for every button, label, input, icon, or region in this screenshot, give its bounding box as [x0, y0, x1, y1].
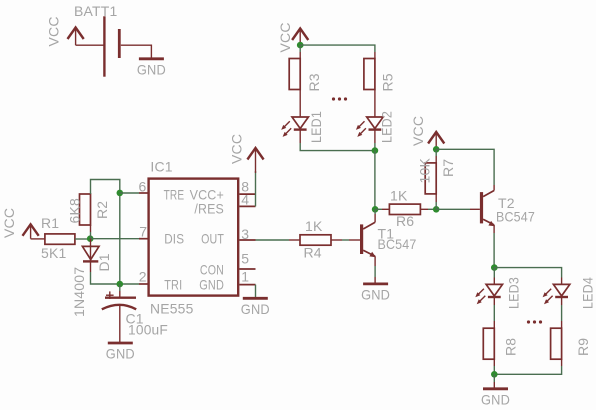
- svg-text:R4: R4: [304, 245, 322, 261]
- svg-text:R9: R9: [575, 338, 591, 356]
- ground (C1): [106, 343, 135, 362]
- wire node A to pin 7: [90, 238, 139, 240]
- svg-text:1N4007: 1N4007: [71, 267, 87, 317]
- svg-text:R5: R5: [380, 73, 396, 91]
- svg-text:TRE: TRE: [164, 187, 185, 203]
- ellipsis dots between R3 and R5: [332, 97, 347, 100]
- power VCC (top rail): [292, 29, 308, 41]
- wire node C to C1: [119, 284, 121, 291]
- resistor R5: [364, 52, 396, 92]
- ground (bottom right): [481, 389, 510, 408]
- svg-text:VCC: VCC: [46, 16, 62, 46]
- node C (pin 2 / C1 junction): [117, 281, 124, 288]
- wire R8 to ground row: [493, 359, 495, 366]
- pin 4 /RES stub: [239, 205, 255, 207]
- svg-text:D1: D1: [96, 253, 112, 271]
- wire LED3 to R8: [493, 298, 495, 306]
- svg-text:R2: R2: [94, 201, 110, 219]
- resistor R6: [375, 188, 436, 230]
- wire junction to ground: [493, 374, 495, 382]
- svg-text:6K8: 6K8: [67, 198, 83, 224]
- svg-text:10K: 10K: [417, 158, 433, 184]
- pin 3 OUT stub: [239, 239, 255, 241]
- wire LED1 cathode to junction: [299, 130, 301, 143]
- svg-text:LED2: LED2: [379, 111, 395, 143]
- IC IC1 NE555 body: [149, 179, 239, 296]
- resistor R4: [289, 218, 331, 261]
- ellipsis dots between LED3 and LED4 branches: [527, 320, 542, 323]
- node T1 collector: [372, 206, 379, 213]
- node R6/R7/T2 base: [433, 206, 440, 213]
- svg-text:LED3: LED3: [506, 277, 522, 309]
- wire VCC rail to R5: [300, 45, 375, 52]
- svg-text:BC547: BC547: [496, 209, 535, 225]
- wire D1 to pin 2 row: [90, 261, 92, 272]
- wire VCC rail to R3: [299, 45, 301, 52]
- LED LED1: [281, 111, 324, 143]
- power VCC (battery): [68, 28, 84, 40]
- LED LED4: [543, 277, 596, 309]
- wire R1 to node A: [75, 238, 90, 240]
- svg-text:GND: GND: [199, 276, 224, 292]
- svg-text:2: 2: [139, 269, 147, 285]
- node B (pin 6 junction): [117, 190, 124, 197]
- power VCC (IC1 pin 8): [247, 148, 263, 160]
- svg-text:R8: R8: [503, 338, 519, 356]
- wire VCC to battery plus: [76, 44, 105, 46]
- pin 7 DIS stub: [139, 238, 149, 240]
- battery BATT1: [104, 16, 119, 76]
- transistor T1 BC547: [362, 214, 417, 257]
- wire T2 emitter down: [493, 225, 495, 233]
- resistor R1: [41, 215, 75, 261]
- svg-text:VCC: VCC: [277, 22, 293, 52]
- wire R5 to LED2: [374, 90, 376, 118]
- svg-text:IC1: IC1: [150, 159, 172, 175]
- svg-text:6: 6: [139, 178, 147, 194]
- wire node to T2 base: [436, 208, 470, 210]
- ground (IC1 pin 1): [241, 298, 270, 317]
- wire junction to T1 collector node: [374, 151, 376, 210]
- svg-text:4: 4: [241, 191, 249, 207]
- pin 1 GND stub: [239, 284, 255, 286]
- pin 8 VCC+ stub: [239, 193, 255, 195]
- svg-text:R7: R7: [440, 159, 456, 177]
- resistor R9: [551, 328, 591, 359]
- ground (T1): [361, 284, 390, 303]
- wire LED2 cathode to junction: [374, 130, 376, 143]
- svg-text:TRI: TRI: [164, 276, 182, 292]
- power VCC (right, R7): [428, 132, 444, 144]
- svg-text:5: 5: [241, 251, 249, 267]
- svg-text:CON: CON: [200, 261, 224, 277]
- LED LED3: [475, 268, 521, 309]
- wire LED4 to R9: [561, 298, 563, 306]
- wire node B to pin 6: [120, 192, 139, 194]
- svg-text:3: 3: [241, 226, 249, 242]
- svg-text:BATT1: BATT1: [74, 3, 118, 19]
- node LED cathode junction: [372, 147, 379, 154]
- wire T1 emitter to ground: [374, 256, 376, 266]
- wire VCC to R1: [31, 238, 45, 240]
- node VCC R7: [433, 146, 440, 153]
- power VCC (left, R1): [23, 224, 39, 236]
- svg-text:LED4: LED4: [580, 277, 596, 309]
- svg-text:DIS: DIS: [164, 230, 184, 246]
- svg-text:LED1: LED1: [308, 111, 324, 143]
- wire R9 to ground row: [561, 359, 563, 366]
- resistor R7: [417, 149, 457, 209]
- svg-text:R3: R3: [306, 73, 322, 91]
- LED LED2: [356, 111, 395, 143]
- svg-text:100uF: 100uF: [128, 322, 168, 338]
- wire battery minus to GND: [121, 45, 152, 58]
- pin 5 CON stub: [239, 268, 255, 270]
- wire junction to LED4 branch: [494, 268, 561, 278]
- node ground row junction: [491, 371, 498, 378]
- wire pin 8 pin 4 to VCC: [255, 171, 257, 206]
- diode D1: [71, 239, 112, 317]
- wire pin 1 to ground: [255, 285, 257, 298]
- svg-text:BC547: BC547: [378, 236, 417, 252]
- resistor R8: [483, 328, 518, 359]
- wire R3 to LED1: [299, 90, 301, 118]
- pin 6 TRE stub: [139, 192, 149, 194]
- svg-text:1K: 1K: [390, 188, 408, 204]
- wire C1 to ground: [119, 306, 121, 343]
- resistor R2: [67, 194, 111, 225]
- svg-text:7: 7: [139, 224, 147, 240]
- svg-text:OUT: OUT: [201, 230, 224, 246]
- node A (R1/R2/D1/pin7): [87, 235, 94, 242]
- svg-text:1: 1: [241, 268, 249, 284]
- node VCC top rail: [297, 42, 304, 49]
- wire R4 to T1 base: [331, 239, 342, 241]
- svg-text:VCC: VCC: [229, 134, 245, 164]
- svg-text:R6: R6: [396, 213, 414, 229]
- pin 2 TRI stub: [139, 283, 149, 285]
- svg-text:1K: 1K: [305, 218, 323, 234]
- svg-text:/RES: /RES: [194, 201, 224, 217]
- svg-text:R1: R1: [41, 215, 59, 231]
- transistor T2 BC547: [482, 185, 536, 226]
- wire R2 top loop to pin 6: [91, 180, 120, 285]
- svg-text:VCC: VCC: [410, 116, 426, 146]
- resistor R3: [289, 52, 322, 92]
- ground (battery): [137, 59, 166, 78]
- wire pin 3 OUT to R4: [256, 239, 290, 241]
- svg-text:VCC: VCC: [1, 208, 17, 238]
- wire R2 bottom to node A: [90, 225, 92, 232]
- svg-text:5K1: 5K1: [41, 245, 67, 261]
- wire VCC to T2 collector: [436, 149, 494, 185]
- svg-text:NE555: NE555: [150, 301, 194, 317]
- capacitor C1: [102, 291, 168, 337]
- node T2 emitter junction: [491, 264, 498, 271]
